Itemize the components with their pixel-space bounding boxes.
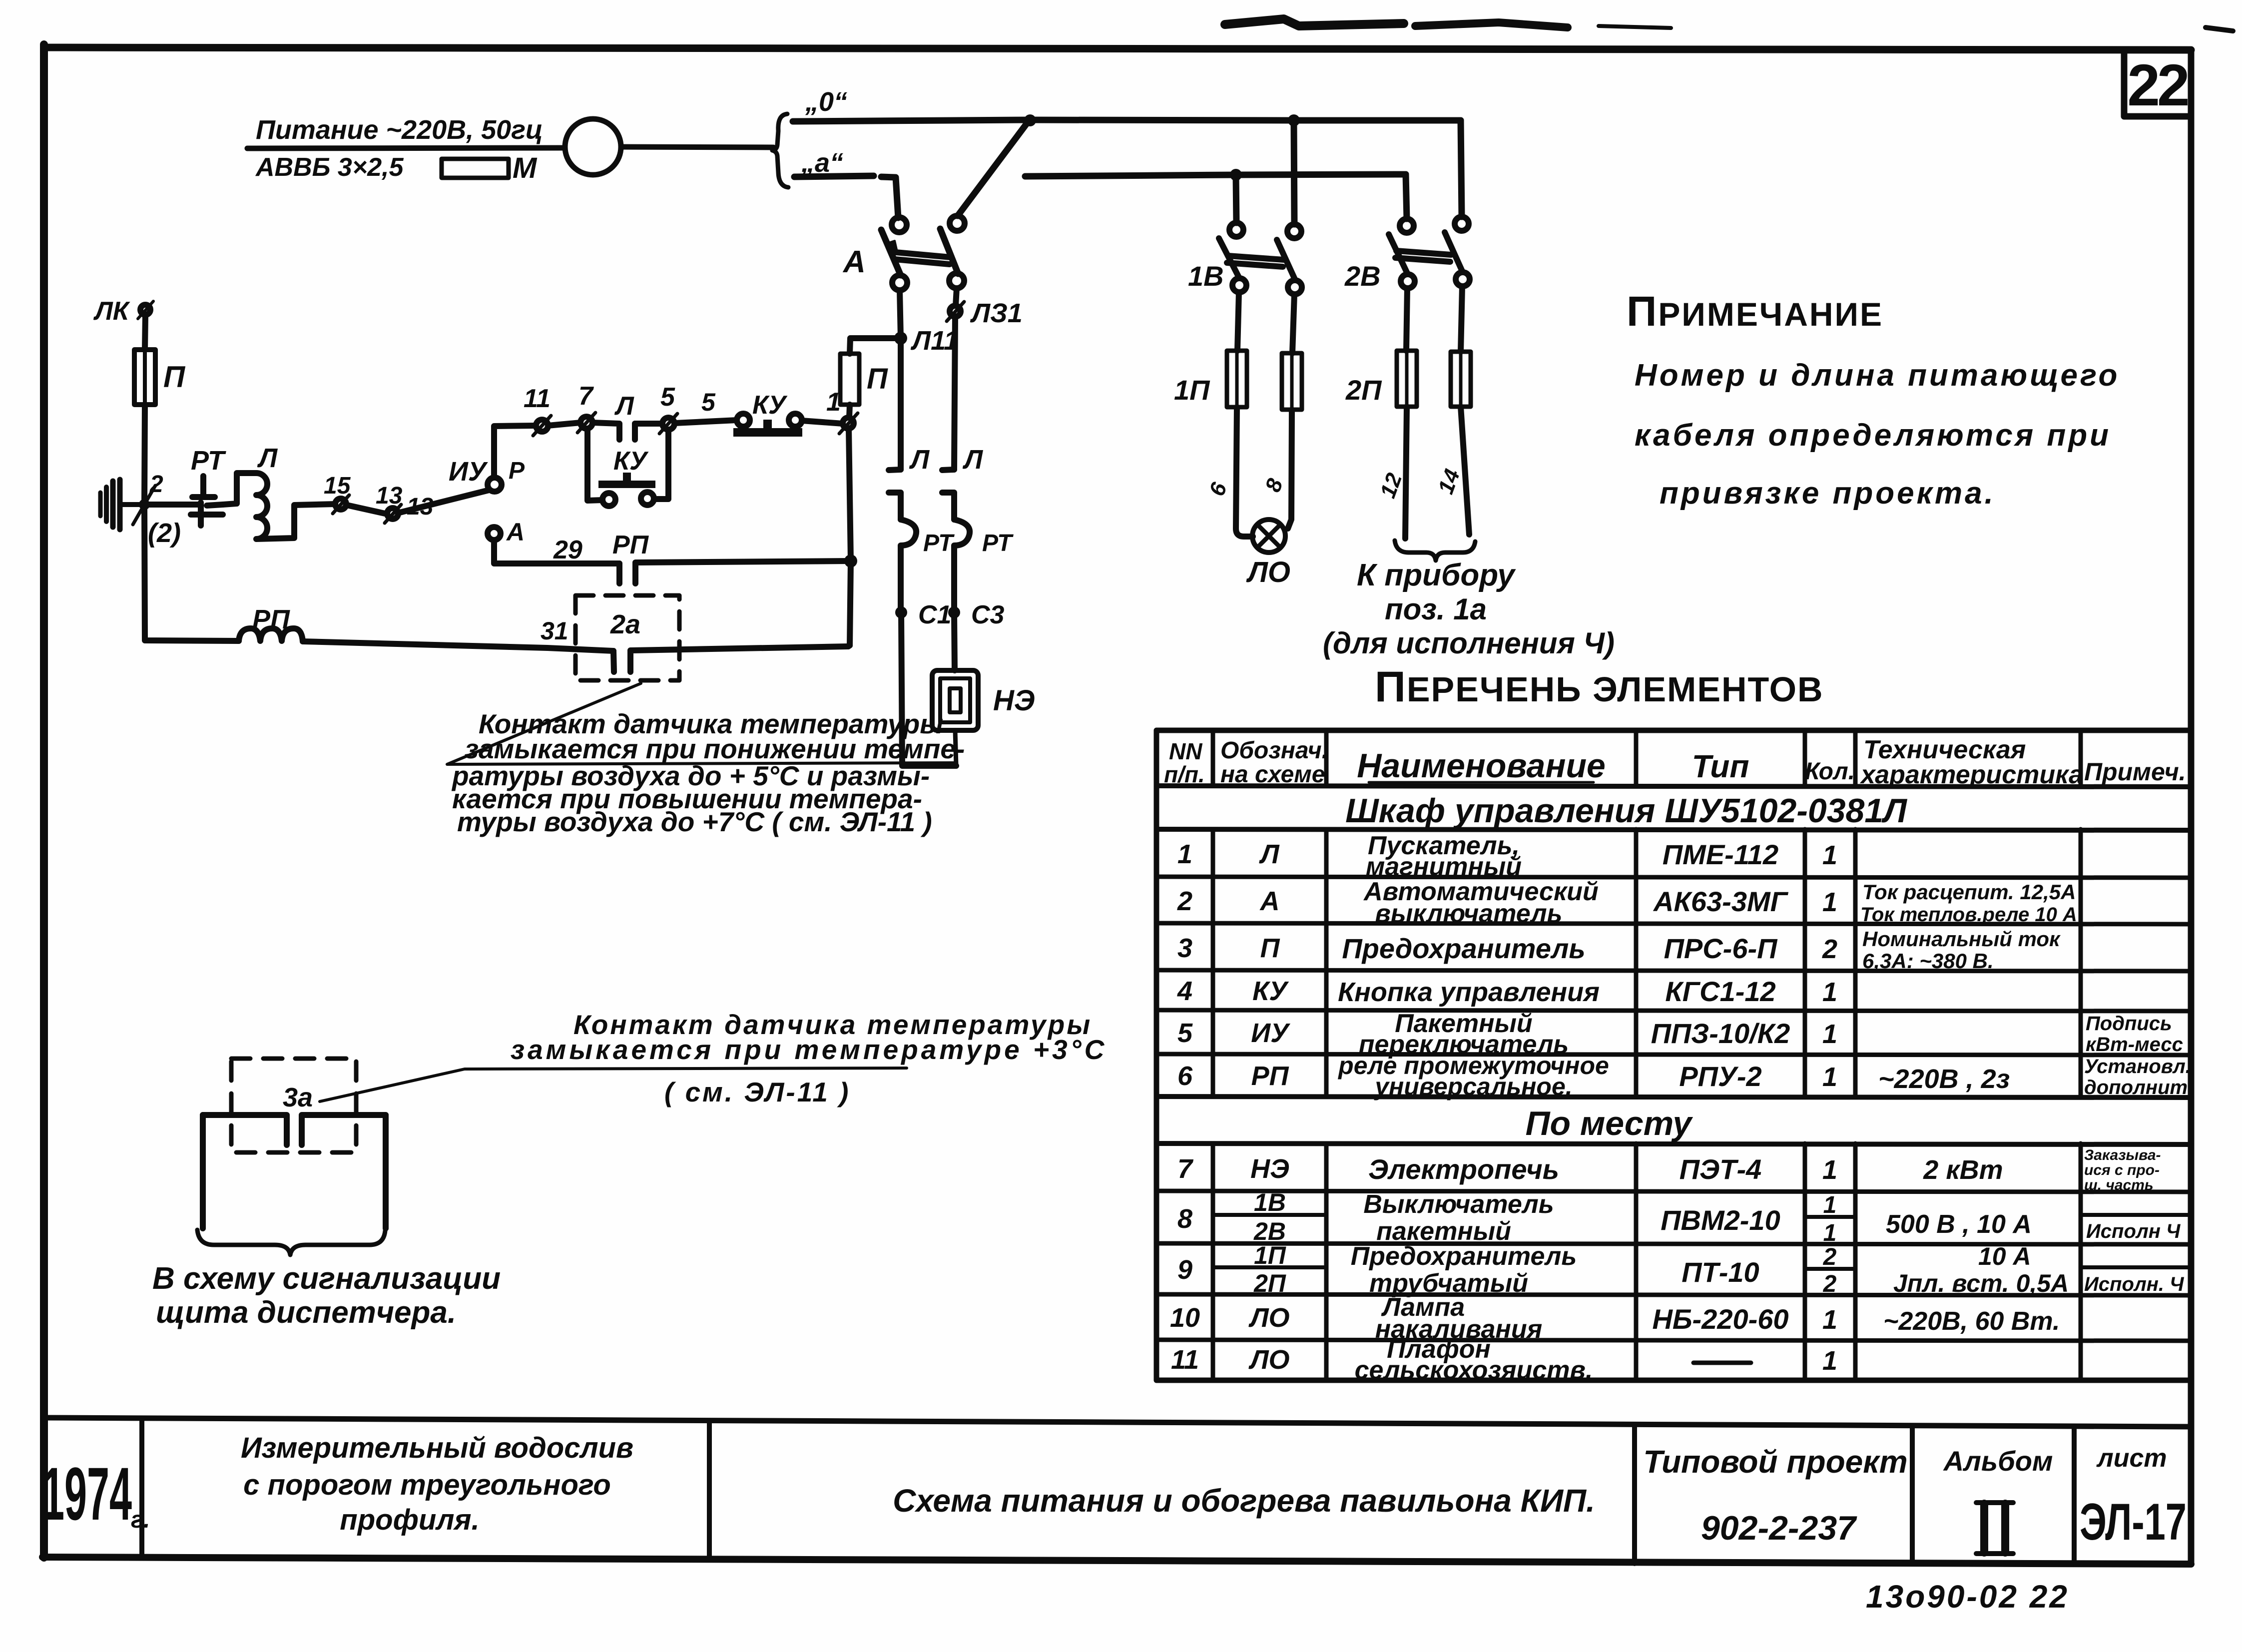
svg-text:2: 2: [1177, 886, 1192, 916]
svg-text:Альбом: Альбом: [1943, 1445, 2053, 1477]
heater НЭ outer case: [932, 670, 978, 730]
title block divider before Альбом: [1910, 1426, 1915, 1564]
svg-text:3: 3: [1177, 933, 1192, 963]
svg-text:ися с про-: ися с про-: [2084, 1162, 2160, 1178]
svg-text:ПРИМЕЧАНИЕ: ПРИМЕЧАНИЕ: [1627, 288, 1883, 335]
wire 1В left to fuse 1П: [1237, 292, 1239, 351]
svg-text:А: А: [506, 518, 525, 546]
svg-text:ЛО: ЛО: [1248, 1303, 1289, 1333]
svg-text:РП: РП: [1251, 1061, 1289, 1091]
button КУ (start) left terminal: [602, 493, 615, 506]
svg-text:с порогом треугольного: с порогом треугольного: [243, 1469, 611, 1501]
svg-text:2П: 2П: [1253, 1269, 1286, 1297]
svg-text:2: 2: [149, 471, 163, 498]
wire С1 down to loop bottom: [901, 612, 956, 766]
wire bus а segment 2: [1025, 174, 1406, 176]
wire КУ to terminal 5: [675, 420, 737, 423]
wire 29 line: [494, 540, 619, 563]
svg-text:ЛО: ЛО: [1248, 1345, 1289, 1375]
svg-text:13о90-02 22: 13о90-02 22: [1866, 1579, 2069, 1615]
svg-text:15: 15: [324, 473, 351, 499]
wire 1В right to fuse 1П right: [1292, 294, 1294, 353]
wire 7 to 11: [548, 423, 580, 426]
scan smudge line top: [1225, 19, 1404, 26]
svg-text:Выключатель: Выключатель: [1363, 1190, 1554, 1219]
svg-text:10: 10: [1170, 1303, 1200, 1333]
svg-text:1: 1: [1177, 839, 1192, 869]
terminal 15 circle: [335, 499, 346, 510]
svg-text:2: 2: [1822, 934, 1837, 964]
svg-text:1: 1: [826, 388, 841, 417]
node С3 dot: [948, 606, 960, 618]
cable length box: [442, 159, 509, 178]
svg-text:Ток расцепит. 12,5А: Ток расцепит. 12,5А: [1862, 880, 2076, 904]
breaker А left blade: [881, 230, 901, 275]
svg-text:1: 1: [1822, 840, 1837, 870]
svg-text:9: 9: [1177, 1255, 1192, 1285]
terminal 13 circle: [387, 508, 398, 519]
node dot bus 0 at diagonal to А: [1024, 114, 1036, 126]
border frame: [44, 47, 2191, 50]
dashed box 3а: [231, 1059, 356, 1152]
svg-text:П: П: [1260, 933, 1280, 963]
svg-text:7: 7: [578, 382, 594, 411]
svg-text:КУ: КУ: [1252, 976, 1289, 1006]
svg-text:Измерительный водослив: Измерительный водослив: [241, 1432, 633, 1464]
svg-text:2: 2: [1823, 1244, 1837, 1270]
svg-text:3а: 3а: [283, 1083, 313, 1112]
svg-text:Номер и длина питающего: Номер и длина питающего: [1635, 358, 2120, 393]
svg-text:5: 5: [1177, 1018, 1193, 1048]
fuse П (control): [840, 354, 859, 405]
svg-text:Ток теплов.реле 10 А: Ток теплов.реле 10 А: [1860, 904, 2077, 926]
wire drop bus а to 1В left pole: [1236, 175, 1236, 223]
dashed box 2а: [575, 595, 679, 680]
switch 2В right blade: [1445, 232, 1463, 272]
svg-text:поз. 1а: поз. 1а: [1385, 592, 1487, 626]
svg-text:п/п.: п/п.: [1164, 761, 1205, 787]
svg-text:привязке проекта.: привязке проекта.: [1660, 476, 1996, 511]
fuse 1П right: [1282, 353, 1302, 410]
feed source circle: [565, 119, 621, 175]
parallel loop wire via button КУ (start): [587, 429, 602, 501]
wire fuse 2П left down: [1405, 407, 1407, 539]
svg-text:6,3А: ~380 В.: 6,3А: ~380 В.: [1862, 949, 1994, 973]
sheet number box 22: [2124, 50, 2191, 116]
svg-text:Обознач.: Обознач.: [1220, 737, 1328, 764]
svg-text:( см. ЭЛ-11 ): ( см. ЭЛ-11 ): [664, 1077, 850, 1107]
wire 5 to contact Л aux: [635, 421, 662, 427]
svg-text:ПЭТ-4: ПЭТ-4: [1680, 1153, 1762, 1185]
svg-text:Питание ~220В, 50гц: Питание ~220В, 50гц: [256, 115, 543, 145]
svg-text:4: 4: [1177, 976, 1192, 1006]
wire 31 line: [303, 641, 613, 651]
svg-text:НБ-220-60: НБ-220-60: [1652, 1303, 1788, 1335]
title block top line: [44, 1418, 2191, 1427]
svg-text:профиля.: профиля.: [340, 1504, 479, 1536]
svg-text:лист: лист: [2096, 1444, 2167, 1473]
svg-text:29: 29: [553, 536, 582, 564]
svg-text:10 А: 10 А: [1978, 1242, 2031, 1270]
switch 1В left pole bottom terminal: [1232, 278, 1246, 292]
wire Л11 down to contact Л left: [898, 338, 904, 470]
wire 11 to switch ИУ: [494, 426, 536, 478]
svg-text:1: 1: [1822, 1155, 1837, 1185]
terminal 1 circle: [843, 418, 854, 429]
switch ИУ blade: [400, 490, 489, 513]
svg-text:КГС1-12: КГС1-12: [1665, 976, 1775, 1007]
svg-text:1: 1: [1822, 1346, 1837, 1376]
contact РП (relay aux): [619, 561, 849, 583]
svg-text:ПВМ2-10: ПВМ2-10: [1661, 1204, 1780, 1236]
button КУ (start) right terminal: [641, 492, 654, 505]
svg-text:Л: Л: [257, 443, 278, 473]
wire heater to loop bottom: [955, 730, 956, 766]
svg-text:П: П: [163, 360, 186, 394]
wire 13 to 15: [347, 505, 387, 514]
svg-text:РТ: РТ: [982, 530, 1014, 556]
thermal element РТ left: [901, 520, 916, 612]
svg-text:2а: 2а: [610, 609, 640, 639]
fuse 2П right: [1451, 352, 1471, 407]
svg-text:РТ: РТ: [923, 530, 955, 556]
wire bus а segment 1: [794, 176, 874, 177]
wire feed to brace: [621, 147, 773, 147]
breaker А right pole top terminal: [950, 216, 965, 231]
svg-text:Л11: Л11: [910, 326, 959, 356]
svg-text:1В: 1В: [1254, 1188, 1286, 1216]
svg-text:7: 7: [1177, 1154, 1194, 1184]
svg-text:ИУ: ИУ: [1251, 1018, 1290, 1048]
svg-text:8: 8: [1260, 475, 1288, 495]
svg-text:1: 1: [1822, 887, 1837, 917]
wire А left pole down to node Л11: [900, 290, 901, 338]
svg-text:К прибору: К прибору: [1357, 558, 1516, 592]
svg-text:Электропечь: Электропечь: [1368, 1153, 1559, 1185]
svg-text:В схему сигнализации: В схему сигнализации: [152, 1261, 501, 1296]
contact 3а (temperature sensor): [203, 1115, 386, 1145]
contact РТ (thermal trip): [192, 476, 215, 497]
svg-text:Кол.: Кол.: [1805, 758, 1855, 785]
svg-text:КУ: КУ: [613, 447, 649, 476]
node Л11 dot: [894, 332, 907, 345]
svg-text:г.: г.: [131, 1507, 150, 1533]
svg-text:А: А: [842, 245, 866, 279]
svg-text:14: 14: [1433, 466, 1465, 498]
lamp ЛО: [1252, 520, 1285, 552]
wire ЛЗ1 down to contact Л right: [954, 317, 955, 470]
svg-text:замыкается при понижении темпе: замыкается при понижении темпе-: [465, 733, 965, 764]
switch 2В right pole bottom terminal: [1456, 272, 1470, 286]
brace под 3а: [197, 1230, 385, 1255]
breaker А left pole top terminal: [892, 217, 907, 232]
switch ИУ hinge circle: [488, 478, 502, 492]
svg-text:Типовой проект: Типовой проект: [1643, 1444, 1907, 1480]
svg-text:РП: РП: [612, 531, 649, 559]
svg-text:кабеля определяются при: кабеля определяются при: [1635, 418, 2111, 453]
button КУ (start) bar: [598, 481, 655, 488]
svg-text:П: П: [867, 363, 888, 395]
svg-text:ш. часть: ш. часть: [2084, 1177, 2154, 1193]
svg-text:ПЕРЕЧЕНЬ ЭЛЕМЕНТОВ: ПЕРЕЧЕНЬ ЭЛЕМЕНТОВ: [1375, 663, 1824, 711]
switch 1В right pole bottom terminal: [1288, 280, 1302, 294]
node dot on fuse branch: [844, 554, 857, 567]
svg-text:11: 11: [524, 384, 551, 413]
svg-text:1В: 1В: [1188, 260, 1224, 292]
wire РТ to coil Л: [223, 473, 256, 505]
svg-text:НЭ: НЭ: [1250, 1154, 1289, 1184]
svg-text:ЛО: ЛО: [1246, 556, 1290, 588]
switch 1В right blade: [1277, 240, 1295, 280]
svg-text:Кнопка управления: Кнопка управления: [1338, 977, 1600, 1007]
svg-text:2: 2: [1823, 1271, 1837, 1297]
row 8 split lines: [1213, 1215, 2191, 1217]
svg-text:1: 1: [1823, 1220, 1837, 1246]
svg-text:РТ: РТ: [191, 446, 226, 476]
wire fuse 1П left down to lamp: [1236, 407, 1253, 537]
svg-text:1: 1: [1822, 1019, 1837, 1049]
terminal 7 circle: [580, 417, 592, 429]
wire С3 down to heater НЭ: [954, 612, 955, 670]
contact Л right (main contact): [942, 470, 954, 520]
svg-text:АК63-3МГ: АК63-3МГ: [1653, 886, 1789, 917]
wire fuse 2П right down: [1461, 407, 1469, 535]
button КУ (stop) right terminal: [789, 414, 802, 427]
svg-text:NN: NN: [1169, 738, 1202, 764]
svg-text:„0“: „0“: [805, 87, 847, 117]
svg-text:универсальное.: универсальное.: [1373, 1073, 1572, 1101]
svg-text:Исполн. Ч: Исполн. Ч: [2084, 1273, 2184, 1295]
svg-text:902-2-237: 902-2-237: [1701, 1509, 1857, 1547]
svg-text:ПТ-10: ПТ-10: [1681, 1256, 1759, 1288]
wire up to node dot: [848, 645, 850, 646]
fuse 2П left: [1397, 351, 1417, 407]
parts table grid: [1156, 730, 2191, 1380]
button КУ (stop) bar: [733, 428, 802, 437]
node С1 dot: [895, 606, 907, 618]
button КУ (stop) left terminal: [737, 414, 750, 427]
svg-text:Л: Л: [1258, 839, 1280, 869]
svg-text:22: 22: [2127, 52, 2188, 118]
album number II: [1984, 1504, 2005, 1553]
svg-text:ИУ: ИУ: [449, 457, 488, 487]
wire diagonal bus 0 to breaker А right pole: [958, 120, 1029, 216]
wire ЛК to fuse П: [145, 315, 145, 350]
svg-text:выключатель: выключатель: [1375, 899, 1562, 928]
svg-text:Установл.: Установл.: [2084, 1056, 2191, 1078]
svg-text:2В: 2В: [1344, 260, 1381, 292]
loop return wire to 5: [654, 430, 668, 499]
svg-text:13: 13: [407, 494, 434, 520]
svg-text:5: 5: [701, 388, 716, 416]
svg-text:6: 6: [1204, 479, 1232, 499]
svg-text:Л: Л: [962, 445, 984, 475]
svg-text:РП: РП: [252, 604, 290, 634]
terminal А (aux) circle: [488, 527, 501, 540]
svg-text:щита диспетчера.: щита диспетчера.: [156, 1295, 456, 1330]
brace к прибору: [1395, 541, 1475, 560]
contact 2а (temperature sensor): [613, 646, 848, 672]
svg-text:13: 13: [376, 483, 403, 509]
svg-text:Л: Л: [909, 445, 930, 475]
wire fuse 1П right down to lamp: [1288, 410, 1292, 529]
svg-text:1974: 1974: [42, 1452, 132, 1536]
wire terminal 1 to button КУ: [802, 421, 843, 424]
breaker А right blade: [940, 229, 958, 274]
svg-text:на схеме: на схеме: [1220, 761, 1325, 788]
switch 2В left blade: [1389, 234, 1408, 274]
svg-text:2П: 2П: [1345, 374, 1382, 406]
svg-text:2 кВт: 2 кВт: [1923, 1155, 2003, 1185]
svg-text:ЛЗ1: ЛЗ1: [970, 298, 1023, 328]
svg-text:АВВБ 3×2,5: АВВБ 3×2,5: [255, 153, 404, 182]
svg-text:Примеч.: Примеч.: [2084, 758, 2186, 786]
leader line 3а callout: [320, 1068, 907, 1101]
svg-text:С3: С3: [971, 600, 1005, 629]
svg-text:Номинальный ток: Номинальный ток: [1862, 927, 2061, 951]
wire drop bus а to 2В left pole: [1406, 174, 1407, 219]
wire РП coil line from node 2: [144, 505, 239, 641]
switch 2В crossbar: [1395, 251, 1451, 262]
feed underline: [247, 148, 564, 148]
svg-text:дополнит: дополнит: [2084, 1077, 2188, 1099]
breaker А left pole bottom terminal: [892, 275, 907, 290]
wire fuse П to node 2: [144, 405, 145, 505]
svg-text:Исполн Ч: Исполн Ч: [2086, 1220, 2181, 1242]
breaker А crossbar: [896, 252, 951, 257]
wire bus 0: [793, 120, 1461, 121]
terminal ЛЗ1 circle: [950, 306, 961, 317]
breaker А right pole bottom terminal: [949, 273, 964, 288]
svg-text:(для исполнения Ч): (для исполнения Ч): [1323, 626, 1615, 660]
row 9 split lines: [1213, 1267, 2191, 1269]
signal wires to dispatcher: [203, 1115, 386, 1228]
wire А right pole down: [956, 288, 957, 306]
switch 1В crossbar: [1227, 256, 1284, 267]
svg-text:ППЗ-10/К2: ППЗ-10/К2: [1651, 1018, 1790, 1049]
switch 2В left pole bottom terminal: [1401, 274, 1415, 288]
svg-text:5: 5: [660, 383, 675, 412]
svg-text:М: М: [513, 152, 538, 184]
svg-text:Схема питания и обогрева п: Схема питания и обогрева павильона КИП.: [893, 1483, 1595, 1519]
svg-text:Jпл. вст. 0,5А: Jпл. вст. 0,5А: [1893, 1269, 2069, 1297]
title block divider after year: [139, 1418, 144, 1558]
switch 1В left pole top terminal: [1229, 223, 1243, 237]
svg-text:1П: 1П: [1254, 1241, 1286, 1269]
svg-text:11: 11: [1171, 1345, 1199, 1375]
table verticals: [1211, 730, 1215, 1380]
title block divider before Типовой проект: [1632, 1425, 1637, 1564]
svg-text:НЭ: НЭ: [993, 684, 1035, 717]
svg-text:1: 1: [1822, 977, 1837, 1007]
coil Л (contactor coil): [256, 473, 335, 539]
svg-text:1П: 1П: [1174, 374, 1210, 406]
svg-text:500 В , 10 А: 500 В , 10 А: [1886, 1210, 2032, 1239]
title block divider after object name: [707, 1421, 712, 1560]
svg-text:ПМЕ-112: ПМЕ-112: [1663, 839, 1778, 870]
thermal element РТ right: [954, 520, 970, 612]
svg-text:Предохранитель: Предохранитель: [1342, 933, 1585, 964]
terminal 11 circle: [536, 420, 548, 432]
svg-text:характеристика: характеристика: [1859, 760, 2083, 789]
svg-text:Л: Л: [614, 392, 634, 421]
switch 1В right pole top terminal: [1287, 224, 1301, 238]
svg-text:1: 1: [1822, 1062, 1837, 1092]
terminal ЛК circle: [140, 305, 150, 315]
brace {: [772, 114, 788, 187]
svg-text:кВт-месс: кВт-месс: [2086, 1034, 2183, 1056]
wire bus 0 drop to 2В right pole: [1461, 120, 1462, 217]
fuse 1П left: [1227, 351, 1247, 407]
svg-text:Подпись: Подпись: [2086, 1013, 2172, 1035]
title block divider before лист: [2072, 1426, 2077, 1564]
svg-text:замыкается при температуре +3°: замыкается при температуре +3°С: [511, 1034, 1107, 1065]
node dot bus 0 at 1В drop: [1288, 114, 1300, 126]
svg-text:Заказыва-: Заказыва-: [2084, 1147, 2161, 1163]
svg-text:ЭЛ-17: ЭЛ-17: [2080, 1493, 2187, 1551]
svg-text:С1: С1: [918, 600, 951, 629]
switch 2В left pole top terminal: [1400, 219, 1414, 233]
wire 2В left to fuse 2П: [1406, 288, 1407, 351]
node dot bus а at 1В drop: [1230, 169, 1242, 181]
svg-text:(2): (2): [148, 518, 181, 548]
contact Л aux (self-hold): [592, 423, 635, 440]
wire branch Л11 to fuse П: [850, 338, 901, 354]
svg-text:сельскохозяиств.: сельскохозяиств.: [1355, 1356, 1593, 1385]
svg-text:РПУ-2: РПУ-2: [1679, 1061, 1761, 1092]
svg-text:А: А: [1259, 886, 1280, 916]
heater НЭ inner case: [940, 678, 970, 722]
svg-text:Предохранитель: Предохранитель: [1351, 1242, 1577, 1271]
svg-text:6: 6: [1177, 1061, 1193, 1091]
wire 2В right to fuse 2П right: [1461, 286, 1462, 352]
wire drop bus 0 to 1В right pole: [1294, 120, 1294, 224]
switch 1В left blade: [1219, 238, 1239, 278]
wire fuse П to terminal 1: [849, 405, 850, 418]
svg-text:Шкаф управления ШУ5102-0381Л: Шкаф управления ШУ5102-0381Л: [1345, 792, 1907, 830]
coil РП (relay coil): [239, 628, 303, 641]
svg-text:Тип: Тип: [1692, 748, 1749, 784]
leader line 2а callout: [447, 683, 954, 764]
node 2 (ground node): [139, 499, 150, 510]
svg-text:туры воздуха до +7°С ( см. ЭЛ: туры воздуха до +7°С ( см. ЭЛ-11 ): [457, 806, 932, 837]
contact Л left (main contact): [889, 470, 901, 520]
svg-text:~220В, 60 Вт.: ~220В, 60 Вт.: [1883, 1307, 2060, 1336]
svg-text:По месту: По месту: [1526, 1104, 1693, 1142]
svg-text:1: 1: [1823, 1192, 1837, 1218]
svg-text:8: 8: [1177, 1204, 1192, 1234]
svg-text:Р: Р: [509, 458, 525, 484]
svg-text:Наименование: Наименование: [1357, 747, 1606, 785]
svg-text:КУ: КУ: [752, 391, 788, 420]
fuse П (incoming): [134, 350, 155, 405]
wire terminal 1 down through node to 31 corner: [849, 429, 851, 645]
terminal 5 circle: [662, 418, 674, 430]
wire bus а corner to А left pole: [881, 177, 898, 218]
svg-text:ЛК: ЛК: [93, 297, 130, 326]
svg-text:31: 31: [541, 617, 568, 645]
switch 2В right pole top terminal: [1455, 217, 1469, 231]
heater НЭ element slot: [950, 688, 961, 712]
wire node 2 to contact РТ: [144, 502, 198, 508]
ground symbol: [121, 502, 142, 507]
svg-text:ПРС-6-П: ПРС-6-П: [1664, 933, 1778, 964]
svg-text:~220В , 2з: ~220В , 2з: [1878, 1064, 2010, 1094]
svg-text:12: 12: [1375, 470, 1407, 501]
svg-text:1: 1: [1822, 1305, 1837, 1335]
